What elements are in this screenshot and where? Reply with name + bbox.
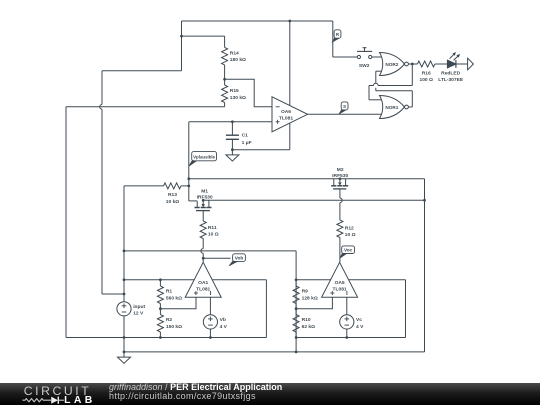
svg-text:OA5: OA5	[335, 280, 345, 286]
node: OA1 output	[202, 257, 205, 260]
svg-text:LAB: LAB	[64, 395, 96, 405]
svg-text:1 μF: 1 μF	[242, 140, 252, 146]
wire: OA5 - input to Vc	[346, 297, 348, 315]
LED RedLED LTL-307EE	[447, 60, 456, 68]
resistor R1 560k	[159, 280, 161, 286]
svg-text:150 kΩ: 150 kΩ	[166, 324, 182, 330]
svg-text:OA1: OA1	[198, 280, 208, 286]
svg-text:R10: R10	[302, 317, 311, 323]
svg-text:128 kΩ: 128 kΩ	[302, 295, 318, 301]
node: R2 bottom	[159, 336, 162, 339]
wire: R-flag corner down to SW2	[332, 21, 334, 57]
NOR gate NOR2	[380, 53, 405, 76]
svg-text:TL081: TL081	[333, 287, 347, 293]
svg-text:IRF530: IRF530	[197, 194, 213, 200]
capacitor C1 1uF	[231, 122, 233, 135]
svg-text:NOR2: NOR2	[385, 62, 398, 67]
wire: R11 to OA1 output, hop over rail	[202, 239, 204, 249]
ground rail	[124, 351, 425, 353]
node: input- on ground rail	[123, 351, 126, 354]
wire: far-left vertical	[65, 107, 67, 338]
ground symbol	[123, 352, 125, 357]
resistor R12 10	[339, 219, 341, 221]
wire: Vplausible column x=188.8	[188, 122, 190, 201]
node: R14/R15 junction	[223, 78, 226, 81]
op-amp OA6 TL081	[272, 97, 308, 132]
wire: input+ column vertical	[123, 186, 125, 302]
resistor R16 100	[412, 63, 417, 65]
flag Vplausible	[189, 159, 197, 166]
wire: OA6 V+ riser from top net	[289, 21, 291, 106]
resistor R14 180k	[224, 36, 226, 47]
wire: R12 to OA5 output	[339, 238, 341, 263]
svg-text:C1: C1	[242, 133, 249, 139]
svg-text:Vb: Vb	[220, 317, 226, 323]
voltage source input 12V	[117, 302, 131, 316]
node: ground rail junction	[295, 351, 298, 354]
resistor R10 62k	[295, 309, 297, 315]
wire: R15 bottom rail going left	[66, 106, 225, 108]
voltage source Vc 4V	[340, 315, 354, 329]
wire: NOR2 output to NOR1 top input	[411, 64, 413, 86]
voltage source Vb 4V	[203, 315, 217, 329]
node: OA1 V+ wire junction	[123, 278, 126, 281]
resistor R11 10	[202, 220, 204, 222]
wire: OA1 V+ pin left	[124, 279, 194, 281]
resistor R15 130k	[224, 79, 226, 85]
svg-text:Vc: Vc	[356, 317, 362, 323]
wire: OA6 V- drop	[289, 123, 291, 150]
wire: branch to R14 top	[182, 35, 225, 37]
svg-text:input: input	[133, 304, 145, 310]
svg-text:OA6: OA6	[281, 109, 291, 115]
svg-text:10 Ω: 10 Ω	[208, 232, 219, 238]
net flag (output node)	[468, 58, 474, 70]
flag R	[332, 36, 339, 42]
wire: rail corner down at 296.1 / R9 column	[295, 251, 297, 352]
svg-text:4 V: 4 V	[356, 324, 364, 330]
wire: OA5 V+ pin left	[296, 279, 331, 281]
node: M1 source junction	[202, 199, 205, 202]
node: C1 bottom junction	[231, 148, 234, 151]
node: rail 250.9 junction	[123, 250, 126, 253]
wire: Vob stub	[203, 257, 230, 259]
svg-text:S: S	[343, 104, 346, 109]
wire: supply rail y=250.9	[124, 250, 296, 252]
svg-text:R9: R9	[302, 289, 309, 295]
wire: OA5 V- pin right	[349, 279, 406, 281]
svg-text:62 kΩ: 62 kΩ	[302, 324, 316, 330]
svg-text:R11: R11	[208, 225, 217, 231]
resistor R9 128k	[295, 280, 297, 286]
svg-text:R2: R2	[166, 317, 173, 323]
svg-text:R14: R14	[230, 50, 239, 56]
flag S	[339, 108, 347, 114]
node: Vc bottom	[345, 336, 348, 339]
svg-text:12 V: 12 V	[133, 311, 144, 317]
wire: OA5 V- rail	[296, 337, 405, 339]
svg-text:TL081: TL081	[279, 116, 293, 122]
svg-text:LTL-307EE: LTL-307EE	[438, 77, 464, 83]
svg-text:R15: R15	[230, 88, 239, 94]
node: x=102 jog junction	[123, 293, 126, 296]
wire: M2 gate down to R12	[339, 189, 341, 198]
svg-text:IRF530: IRF530	[332, 173, 348, 179]
resistor R13 10k	[124, 185, 164, 187]
node: Vb bottom	[209, 336, 212, 339]
switch SW2	[357, 55, 360, 58]
svg-text:M2: M2	[337, 167, 344, 173]
node: C1 top junction	[231, 120, 234, 123]
wire: vertical left drop from top wire	[181, 21, 183, 71]
wire: long vertical x=102 down to input node	[101, 71, 103, 105]
wire: top net from left chain to R flag corner	[182, 20, 333, 22]
node: junction top wire / OA6 V+ riser	[288, 20, 291, 23]
svg-text:10 Ω: 10 Ω	[345, 232, 356, 238]
node: M2 source junction	[339, 177, 342, 180]
svg-text:R13: R13	[168, 192, 177, 198]
svg-text:10 kΩ: 10 kΩ	[166, 199, 180, 205]
node: M2 drain rail junction	[187, 177, 190, 180]
node: input- on mid rail	[123, 336, 126, 339]
flag Voc	[340, 252, 347, 259]
wire: OA6 output to NOR1 input (S net)	[308, 113, 382, 115]
wire: jog left toward x=102 column	[102, 70, 182, 72]
svg-text:100 Ω: 100 Ω	[419, 77, 433, 83]
wire: M1 gate down to R11	[202, 211, 204, 221]
node: OA5 V- rail junction	[295, 336, 298, 339]
svg-text:R1: R1	[166, 289, 173, 295]
wire: OA1 + input to R1/R2 divider	[160, 297, 196, 308]
node: R13 junction	[187, 185, 190, 188]
wire: OA1 V- pin right	[212, 279, 266, 281]
svg-text:R16: R16	[422, 70, 431, 76]
svg-text:4 V: 4 V	[220, 324, 228, 330]
svg-text:NOR1: NOR1	[385, 105, 398, 110]
wire: junction to OA6 inverting input	[225, 79, 272, 107]
transistor M1 IRF530	[196, 201, 198, 207]
wire: OA1 - input to Vb	[209, 297, 211, 315]
node: NOR2 output	[411, 63, 414, 66]
node: R9/R10 junction	[295, 307, 298, 310]
flag Vob	[229, 259, 238, 265]
svg-text:560 kΩ: 560 kΩ	[166, 295, 182, 301]
node: junction R14 branch	[180, 35, 183, 38]
wire: bottom jog into input+ column	[102, 293, 124, 295]
svg-text:130 kΩ: 130 kΩ	[230, 95, 246, 101]
svg-text:R12: R12	[345, 225, 354, 231]
svg-text:180 kΩ: 180 kΩ	[230, 57, 246, 63]
wire: OA6 non-inverting input rail	[189, 121, 272, 123]
wire: M1 source rail y=200.3	[203, 199, 424, 201]
wire: C1 bottom to OA6 V-	[232, 149, 289, 151]
svg-text:M1: M1	[201, 189, 208, 195]
transistor M2 IRF530	[333, 179, 335, 186]
svg-text:SW2: SW2	[359, 63, 370, 69]
node: rail joins right vertical	[423, 199, 426, 202]
wire: right boundary vertical x=424.5	[424, 179, 426, 352]
NOR gate NOR1	[380, 96, 405, 119]
svg-text:RedLED: RedLED	[441, 70, 460, 76]
svg-text:TL081: TL081	[196, 287, 210, 293]
wire: M2 drain rail y=178.8	[189, 178, 425, 180]
node: OA5 V+ junction	[295, 278, 298, 281]
ground at C1/OA6	[231, 150, 233, 155]
node: R1 top junction	[159, 278, 162, 281]
node: R1/R2 junction	[159, 307, 162, 310]
svg-text:Vob: Vob	[235, 255, 244, 260]
wire: OA5 + input to R9/R10 divider	[296, 297, 332, 308]
wire: NOR1 output to NOR2 bottom input	[411, 91, 413, 107]
svg-text:Vplausible: Vplausible	[193, 155, 216, 160]
resistor R2 150k	[159, 309, 161, 315]
svg-text:Voc: Voc	[344, 247, 353, 252]
wire: mid rail y=337.5 (V- rail of OA1)	[66, 337, 266, 339]
